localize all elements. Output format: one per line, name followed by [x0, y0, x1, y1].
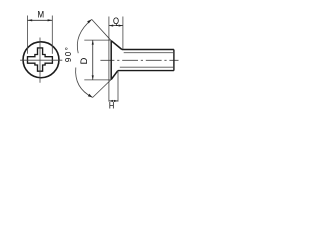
M arrow right [48, 19, 53, 21]
Q arrow left [109, 25, 113, 27]
top angle leader arc [77, 19, 91, 53]
bottom leader arrowhead [88, 94, 93, 98]
H arrow right [114, 100, 118, 102]
Q/H left extension line [108, 17, 110, 102]
Q dimension line [109, 25, 123, 27]
head outline circle (front view) [23, 42, 59, 78]
M dimension extension line left [27, 16, 29, 54]
Q right extension line [122, 17, 124, 50]
shaft end face [173, 50, 175, 71]
svg-text:Q: Q [113, 16, 120, 26]
svg-text:D: D [79, 57, 89, 64]
thread minor line top [124, 52, 174, 54]
svg-text:M: M [38, 9, 45, 20]
bottom countersink cone edge [111, 71, 118, 80]
svg-text:90°: 90° [64, 46, 73, 63]
phillips recess cross outline [28, 48, 53, 71]
H arrow left [109, 100, 113, 102]
D arrow up [92, 40, 94, 44]
H dimension line [109, 100, 118, 102]
M arrow left [28, 19, 33, 21]
bottom cone extension line to vertex [93, 80, 112, 98]
shaft top edge [122, 49, 174, 51]
D arrow down [92, 75, 94, 79]
top countersink cone edge [111, 41, 122, 50]
thread minor line bottom [120, 66, 173, 68]
screw axis centerline (side view) [100, 59, 178, 61]
D dimension line [92, 40, 94, 79]
Q arrow right [119, 25, 123, 27]
top cone extension line to vertex [92, 19, 112, 40]
M dimension extension line right [51, 16, 53, 54]
bottom angle leader arc [76, 68, 93, 98]
vertical centerline of front view [39, 38, 41, 83]
D extension line top [84, 39, 111, 41]
horizontal centerline of front view [20, 59, 62, 61]
shaft bottom edge [118, 70, 174, 72]
D extension line bottom [84, 79, 111, 81]
head flat face (side view) [110, 41, 112, 80]
top leader arrowhead [87, 19, 92, 23]
M dimension line [28, 19, 53, 21]
H right extension line [117, 71, 119, 102]
svg-text:H: H [109, 101, 114, 111]
